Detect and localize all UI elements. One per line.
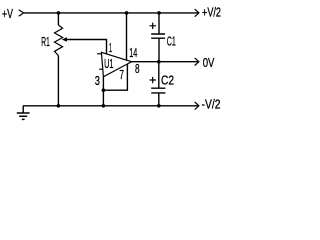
capacitor C1 plates	[151, 34, 165, 38]
svg-text:1: 1	[109, 41, 112, 55]
junction C2 to bottom rail	[157, 104, 161, 108]
junction top rail to C1	[157, 11, 161, 15]
junction pin3/pin7 tie	[102, 88, 106, 92]
polarity plus of C2	[150, 77, 156, 83]
junction top rail to R1	[57, 11, 61, 15]
svg-text:3: 3	[95, 74, 100, 88]
svg-text:14: 14	[129, 46, 137, 60]
junction 0V rail to C1/C2	[157, 60, 161, 64]
wire 0V rail from U1 pin8	[132, 61, 199, 63]
wire R1 bottom lead	[57, 56, 59, 106]
node -V/2 output arrow	[195, 102, 199, 110]
wire wiper to U1 pin1	[67, 40, 107, 54]
wire C2 top lead	[158, 62, 160, 88]
op-amp U1 triangle	[101, 52, 131, 77]
junction pin3 to bottom rail	[102, 104, 106, 108]
pin stub U1 input upper	[97, 53, 101, 55]
capacitor C2 plates	[151, 88, 165, 93]
wiper arrow of R1	[62, 37, 67, 41]
junction top rail to U1 pin14	[125, 11, 129, 15]
node +V/2 output arrow	[195, 9, 199, 17]
svg-text:C2: C2	[161, 74, 174, 88]
node 0V output arrow	[195, 58, 199, 66]
svg-text:R1: R1	[41, 35, 50, 49]
wire C2 bottom lead	[158, 93, 160, 106]
wire U1 pin3 lead down	[102, 77, 104, 106]
wire R1 top lead	[57, 13, 59, 25]
svg-text:+V/2: +V/2	[202, 6, 221, 20]
wire top +V rail	[24, 12, 199, 14]
svg-text:-V/2: -V/2	[202, 98, 221, 112]
pin stub U1 input lower	[99, 68, 103, 70]
svg-text:7: 7	[119, 68, 124, 82]
polarity plus of C1	[150, 23, 157, 29]
resistor R1 potentiometer body	[55, 25, 63, 56]
wire bottom -V/2 rail	[23, 105, 199, 107]
svg-text:C1: C1	[167, 34, 176, 48]
junction R1 to -V/2 bottom rail	[57, 104, 61, 108]
ground symbol	[17, 106, 30, 120]
svg-text:U1: U1	[104, 57, 113, 71]
svg-text:8: 8	[135, 62, 140, 76]
svg-text:0V: 0V	[203, 56, 215, 70]
svg-text:+V: +V	[2, 7, 13, 21]
wire U1 pin14 to +V rail	[126, 13, 128, 60]
node +V input connector	[19, 10, 24, 16]
wire U1 pin7 jog	[103, 64, 127, 90]
wire C1 bottom lead	[158, 38, 160, 62]
wire C1 top lead	[158, 13, 160, 34]
